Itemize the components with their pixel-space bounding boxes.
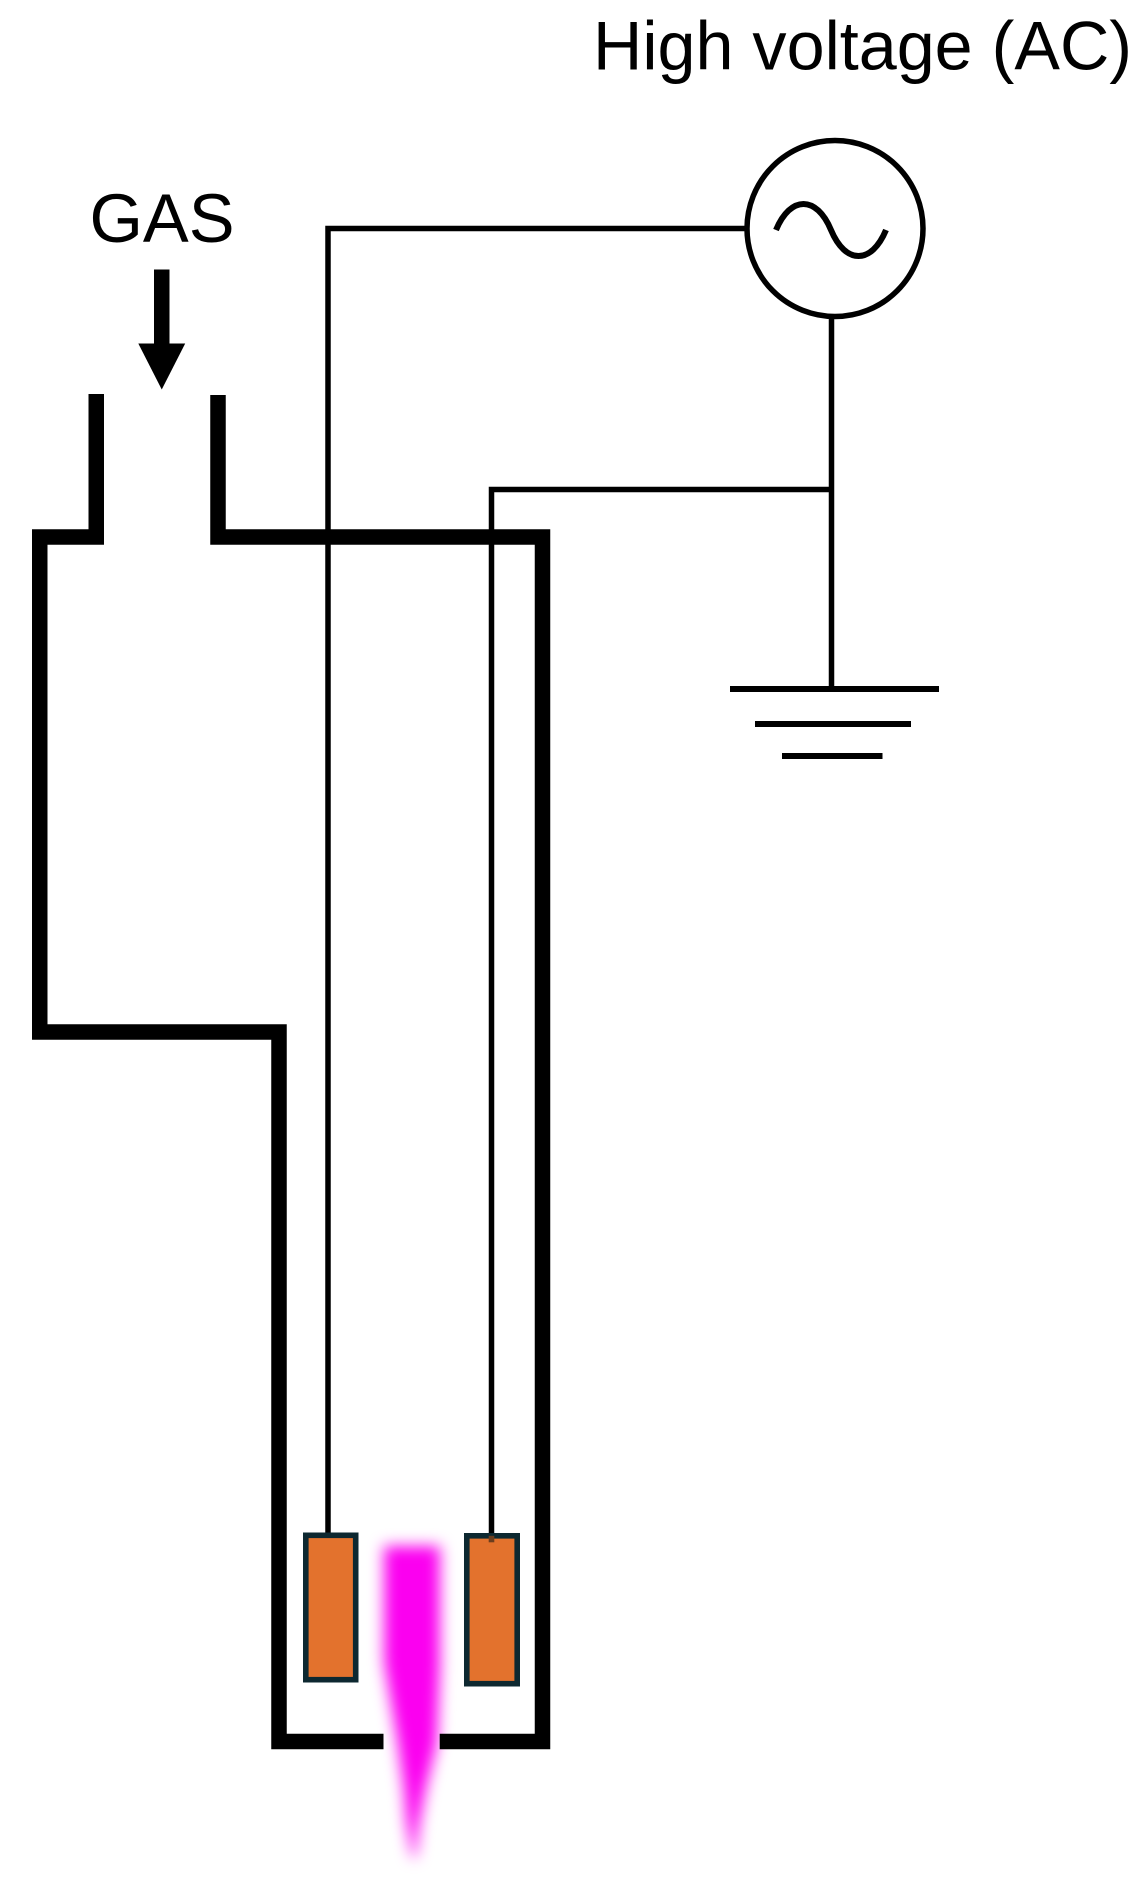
AC source V1 (circle)	[747, 141, 923, 317]
svg-text:GAS: GAS	[90, 180, 235, 257]
wire: powered electrode to AC source (up and right)	[328, 229, 748, 1541]
gas inlet arrow	[138, 270, 185, 390]
electrode (right, grounded)	[467, 1536, 517, 1684]
plasma plume	[384, 1546, 440, 1858]
wire: AC source bottom to ground	[829, 317, 835, 689]
ground	[730, 689, 939, 756]
vessel wall (right: inlet right wall, top shoulder, tube right wall, bottom-right lip)	[218, 395, 543, 1742]
svg-text:High voltage (AC): High voltage (AC)	[593, 9, 1132, 85]
vessel wall (left: inlet left wall, shoulder, outer wall, chamber bottom, tube left wall, bottom-left lip)	[40, 394, 384, 1742]
wire tip over right electrode	[489, 1536, 495, 1543]
electrode (left, powered)	[306, 1535, 356, 1679]
AC source sine symbol	[776, 204, 886, 256]
wire: grounded electrode branch (up and right to source-ground wire)	[492, 490, 832, 1543]
